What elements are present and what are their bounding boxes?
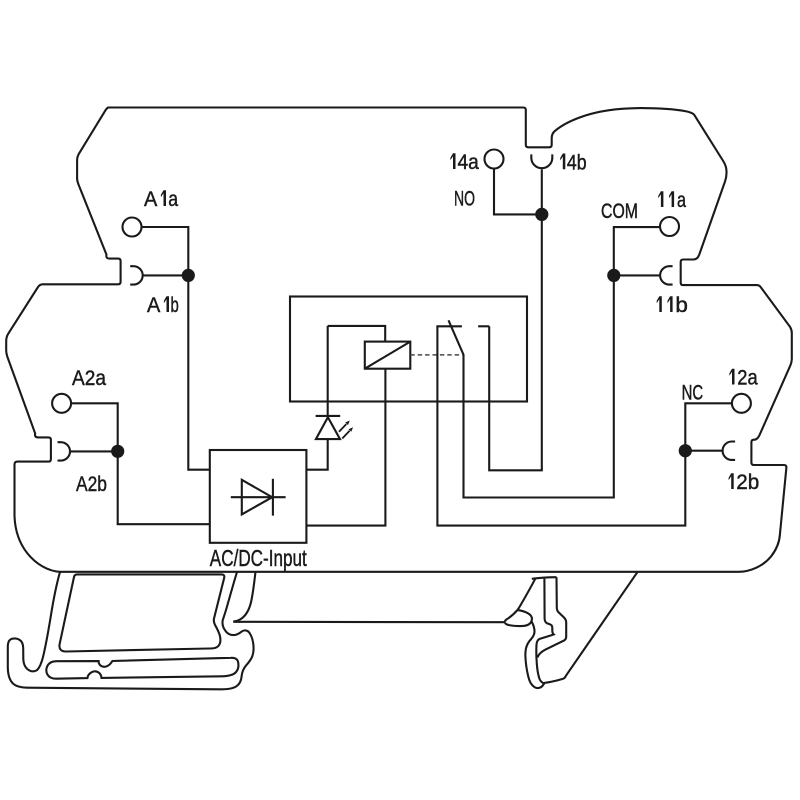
wire 12b clamp to junction bbox=[685, 450, 722, 452]
rail line bbox=[233, 621, 505, 624]
svg-text:AC/DC-Input: AC/DC-Input bbox=[210, 545, 307, 571]
left foot: big cutout bbox=[59, 574, 224, 651]
svg-text:NC: NC bbox=[682, 381, 704, 405]
terminal clamp 14b bbox=[531, 154, 552, 168]
svg-text:COM: COM bbox=[601, 199, 638, 223]
left foot: rail bump bbox=[233, 573, 255, 622]
svg-text:A: A bbox=[144, 187, 158, 211]
svg-text:A2b: A2b bbox=[76, 472, 107, 496]
right clip: funnel outer wall bbox=[537, 577, 566, 657]
svg-text:4b: 4b bbox=[567, 150, 587, 174]
LED arrow 1 bbox=[339, 424, 346, 432]
terminal circle A2a bbox=[52, 394, 71, 413]
relay box bbox=[290, 297, 527, 402]
svg-text:4a: 4a bbox=[458, 150, 479, 174]
coil diagonal bbox=[365, 342, 411, 369]
svg-text:a: a bbox=[677, 188, 686, 212]
coil rectangle bbox=[365, 342, 411, 369]
left foot: bottom slot with notches bbox=[46, 658, 238, 679]
svg-text:a: a bbox=[168, 187, 178, 211]
svg-text:A: A bbox=[147, 293, 161, 317]
diode line bbox=[231, 496, 286, 498]
label 11b bbox=[657, 296, 662, 312]
label 12a bbox=[729, 369, 734, 385]
label 14a bbox=[450, 153, 455, 169]
right clip: arm lower edge, toe, sole and hypotenuse bbox=[525, 572, 637, 688]
junction dot 11b bbox=[607, 269, 620, 282]
terminal circle 11a bbox=[660, 217, 679, 236]
LED cathode bar bbox=[316, 415, 341, 417]
terminal clamp A1b bbox=[130, 266, 142, 284]
wire A1b clamp to junction bbox=[143, 274, 189, 276]
terminal clamp 12b bbox=[723, 442, 736, 460]
label 11a bbox=[658, 191, 663, 207]
terminal circle A1a bbox=[123, 218, 142, 237]
switch NC tick bbox=[436, 325, 462, 327]
wire A2b clamp to junction bbox=[70, 450, 118, 452]
LED triangle bbox=[316, 417, 340, 439]
junction dot 12b bbox=[679, 444, 692, 457]
right clip: rail hook lobe bbox=[505, 610, 532, 626]
left foot: outer contour with hook finger, bottom, right side tooth bbox=[8, 572, 254, 689]
svg-text:b: b bbox=[675, 293, 688, 317]
svg-text:2b: 2b bbox=[736, 470, 759, 494]
diode triangle bbox=[242, 480, 272, 515]
coil return wire bbox=[306, 369, 385, 526]
switch NO tick bbox=[478, 325, 489, 327]
junction dot A2b bbox=[111, 445, 124, 458]
NC wire to 12a/12b bbox=[437, 326, 732, 525]
svg-text:NO: NO bbox=[454, 187, 475, 211]
terminal clamp A2b bbox=[58, 442, 71, 460]
dashed actuator line bbox=[410, 354, 462, 356]
junction dot 14b bbox=[535, 208, 548, 221]
switch blade + COM wire bbox=[449, 227, 661, 497]
wire 14a down to junction bbox=[494, 168, 542, 214]
terminal clamp 11b bbox=[660, 266, 672, 284]
terminal circle 12a bbox=[732, 394, 751, 413]
LED arrow 2 bbox=[342, 431, 349, 439]
housing outline bbox=[6, 108, 792, 572]
wire A1a to junction bbox=[141, 227, 209, 470]
coil feed wires bbox=[328, 326, 386, 342]
diode cathode bar bbox=[272, 479, 274, 516]
right clip: funnel inner wall bbox=[536, 579, 553, 684]
terminal circle 14a bbox=[485, 150, 504, 169]
label 12b bbox=[729, 473, 734, 489]
svg-text:b: b bbox=[171, 293, 179, 317]
junction dot A1b bbox=[182, 269, 195, 282]
wire A2a to junction bbox=[71, 403, 210, 524]
wire 11b clamp to junction bbox=[614, 274, 660, 276]
right clip: top edge bbox=[532, 577, 557, 579]
right clip: arm outer upper edge bbox=[505, 578, 535, 622]
NO wire to 14b bbox=[489, 169, 542, 470]
svg-text:2a: 2a bbox=[737, 366, 757, 390]
AC/DC input box bbox=[210, 450, 307, 543]
svg-text:A2a: A2a bbox=[72, 366, 106, 390]
label 14b bbox=[560, 154, 565, 170]
LED anode wire to box bbox=[306, 439, 327, 470]
